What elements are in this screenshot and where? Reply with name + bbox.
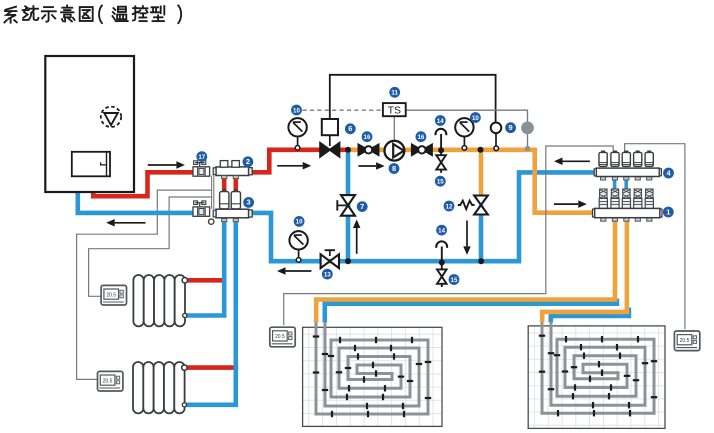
mixing valve with actuator 6 [322, 119, 338, 135]
pipe red drop manifold 2 to actuator a [222, 176, 227, 191]
label 17 [196, 151, 207, 162]
flow arrow left near valve 13 [286, 270, 312, 272]
svg-text:2: 2 [246, 157, 250, 166]
label 3 [243, 197, 254, 208]
thermostat TS 11 [383, 103, 406, 116]
label 6 [345, 123, 356, 134]
manifold 3 drain nub [209, 219, 214, 224]
node bypass bottom junction [478, 258, 484, 264]
wire thermostat T2 to manifold 3 actuator [77, 190, 213, 379]
label 2 [243, 156, 254, 167]
pipe red radiator 1 supply stub [186, 278, 227, 283]
flow arrow right below pump [358, 165, 376, 167]
room thermostat T2 [98, 371, 123, 391]
manifold 3 riser nubs [222, 219, 227, 222]
svg-text:10: 10 [296, 219, 303, 226]
svg-text:10: 10 [472, 115, 479, 122]
svg-text:16: 16 [364, 134, 371, 141]
room thermostat T3 [270, 327, 295, 347]
radiator 2 connectors [182, 365, 187, 370]
wire gray expansion device to orange pipe [527, 134, 529, 148]
sensor 9 [491, 123, 502, 134]
label 14a [435, 115, 446, 126]
wire gray TS down to pump 8 [393, 116, 395, 141]
svg-text:7: 7 [360, 202, 364, 211]
flow arrow right before valve 6 [277, 165, 303, 167]
wire black valve 6 actuator to sensor 9 [330, 75, 496, 124]
pipe blue boiler return from manifold 3 [78, 190, 193, 213]
floor heating coil 2 (spiral pipe with clips) [542, 320, 654, 414]
wire thermostat T1 to manifold 3 actuator [89, 197, 213, 296]
svg-text:15: 15 [437, 179, 444, 186]
svg-text:6: 6 [348, 124, 352, 133]
flow arrow left above manifold 4 [563, 160, 590, 162]
svg-text:1: 1 [666, 207, 670, 216]
manifold 3 radiator return [216, 209, 249, 218]
label 15a [435, 176, 446, 187]
pipe blue below bypass valve 12 [479, 205, 484, 263]
flow arrow down bypass branch [466, 221, 468, 247]
svg-text:20.5: 20.5 [275, 334, 285, 340]
manifold 1 floor supply with flow meters [600, 189, 607, 198]
ball valve 16b [412, 144, 422, 155]
node sensor 14b junction [439, 260, 445, 266]
label 14b [436, 225, 447, 236]
wire gray TS to gray expansion device [406, 110, 528, 122]
wire pair manifold 2 to manifold 3 actuators [211, 176, 213, 210]
pipe blue floor zone 2 return [551, 308, 629, 323]
differential bypass valve 12 [474, 196, 488, 206]
svg-text:15: 15 [451, 277, 458, 284]
floor heating zone 1 box with grid [308, 327, 310, 426]
pipe blue return main from manifold 4 via valve 13 to manifold 3 [248, 172, 596, 261]
svg-text:3: 3 [247, 198, 251, 207]
svg-text:20.5: 20.5 [103, 378, 113, 384]
circulation pump 8 [385, 141, 405, 161]
pipe red boiler supply to manifold 2 [93, 172, 193, 196]
label 1 [663, 207, 674, 218]
pipe orange floor zone 2 supply [542, 221, 627, 322]
flow arrow right near manifold 2 [148, 164, 177, 166]
svg-text:TS: TS [388, 104, 401, 116]
node sensor 14a junction [438, 147, 444, 153]
svg-text:14: 14 [438, 227, 445, 234]
label 10b [470, 112, 481, 123]
node mix junction [345, 147, 351, 153]
pressure gauge 10c on blue pipe [298, 250, 300, 258]
svg-text:17: 17 [198, 154, 205, 161]
floor heating zone 2 box with grid [533, 326, 535, 429]
label 7 [357, 201, 368, 212]
label 10c [294, 216, 305, 227]
radiator 1 connectors [182, 278, 187, 283]
valve 17 ball valve on manifold 2 [193, 161, 210, 176]
flow arrow up valve 7 branch [356, 228, 358, 254]
boiler pump symbol [101, 107, 121, 127]
wire manifold 4 actuator to thermostat T4 [625, 144, 685, 330]
label 8 [389, 163, 400, 174]
pipe orange mixed supply main to manifold 1 [348, 150, 594, 213]
room thermostat T1 [101, 285, 126, 305]
svg-text:10: 10 [293, 107, 300, 114]
manifold 2 radiator supply [216, 167, 249, 176]
flow arrow right above manifold 1 [554, 203, 578, 205]
pipe red manifold 2 to mixing valve 6 [251, 150, 322, 173]
manifold 3 thermo actuators [220, 192, 229, 209]
radiator 2 [133, 362, 185, 413]
boiler control panel [72, 152, 110, 177]
node gray wire tap on orange pipe [525, 146, 530, 151]
wire gray dashed gauge to thermostat TS [303, 109, 383, 111]
valve 13 with handle [321, 254, 330, 268]
temperature sensor 14a [436, 129, 447, 135]
pipe red drop manifold 2 to actuator b [234, 176, 239, 191]
radiator 1 [133, 275, 185, 326]
svg-text:11: 11 [391, 90, 398, 97]
pipe blue mixing branch through valve 7 [346, 152, 351, 261]
pipe orange floor zone 1 supply [316, 221, 615, 322]
svg-text:16: 16 [417, 134, 424, 141]
pipe blue floor zone 1 return [325, 299, 617, 323]
valve 7 with handle [341, 195, 355, 205]
manifold 2 riser nubs [222, 176, 227, 179]
label 15b [449, 274, 460, 285]
svg-text:9: 9 [509, 123, 513, 132]
floor heating coil 1 (spiral pipe with clips) [316, 321, 428, 415]
pipe red stub valve 6 to mix junction [339, 148, 348, 153]
boiler [45, 56, 134, 192]
ball valve 16a [358, 144, 368, 155]
svg-text:8: 8 [392, 164, 396, 173]
svg-text:20.5: 20.5 [680, 338, 690, 344]
pressure gauge 10b on orange pipe [463, 137, 465, 146]
wire manifold 4 actuator to thermostat T3 [284, 146, 614, 325]
label 13 [322, 269, 333, 280]
flow arrow left boiler return [115, 222, 146, 224]
svg-text:14: 14 [437, 118, 444, 125]
pipe blue stubs manifold 4 to flow meters [613, 180, 617, 191]
manifold 2 top caps [220, 161, 228, 168]
drain valve 15b [437, 269, 447, 276]
node bypass top junction [478, 147, 484, 153]
node valve 7 bottom junction [345, 258, 351, 264]
valve on manifold 3 [193, 201, 210, 216]
pipe blue riser radiator 2 [186, 218, 236, 404]
label 10a [291, 105, 302, 116]
manifold 4 floor return with actuators [601, 150, 605, 152]
pipe blue riser radiator 1 [186, 218, 224, 315]
pressure gauge 10a on red pipe [297, 137, 299, 146]
label 11 [389, 87, 400, 98]
label 16b [416, 131, 427, 142]
label 12 [444, 201, 455, 212]
title text 系统示意图（温控型） [4, 7, 16, 23]
pipe red radiator 2 supply stub [186, 365, 239, 370]
svg-text:20.5: 20.5 [106, 292, 116, 298]
label 4 [663, 168, 674, 179]
label 16a [362, 131, 373, 142]
svg-text:13: 13 [324, 271, 331, 278]
svg-text:12: 12 [446, 203, 453, 210]
temperature sensor 14b [436, 241, 447, 247]
label 9 [505, 122, 516, 133]
drain valve 15a [436, 155, 446, 162]
room thermostat T4 [674, 331, 699, 351]
pipe orange above bypass valve 12 [479, 150, 484, 197]
gray expansion device [521, 122, 534, 135]
